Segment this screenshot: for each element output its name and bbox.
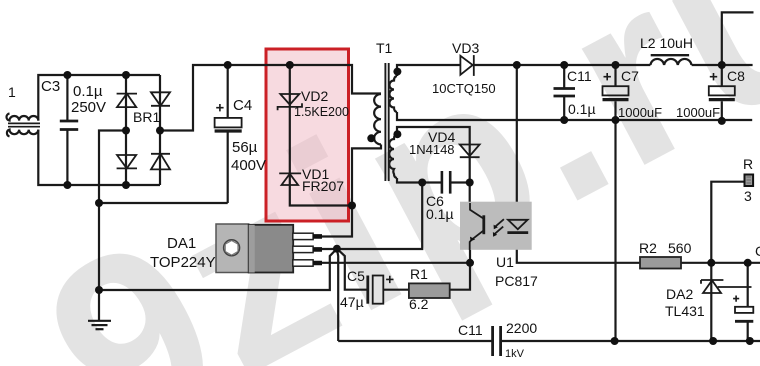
svg-text:T1: T1 bbox=[376, 40, 393, 56]
label VD4 value bbox=[409, 142, 455, 157]
wire AC line bottom rail bbox=[38, 130, 160, 185]
wire secondary hot to VD3 bbox=[397, 65, 460, 76]
transformer T1 secondary winding bottom bbox=[389, 134, 397, 178]
highlight box around VD1/VD2 bbox=[266, 49, 349, 221]
svg-text:C4: C4 bbox=[233, 97, 252, 114]
diode VD1 bbox=[279, 173, 301, 185]
svg-text:U1: U1 bbox=[496, 254, 514, 270]
wire primary return to drain pin bbox=[322, 145, 381, 237]
wire C4 bottom to ground bbox=[99, 202, 228, 204]
label DA1 type bbox=[150, 254, 216, 271]
svg-text:47µ: 47µ bbox=[340, 294, 364, 310]
svg-text:1N4148: 1N4148 bbox=[409, 142, 455, 157]
output capacitor C9 (cut at edge) bbox=[733, 296, 753, 322]
svg-text:TOP224Y: TOP224Y bbox=[150, 254, 216, 271]
transformer T1 secondary winding top bbox=[389, 76, 397, 112]
TVS diode VD2 bbox=[278, 94, 302, 110]
diode VD3 bbox=[460, 55, 473, 76]
svg-text:C11: C11 bbox=[458, 322, 483, 338]
junction node C3 bottom bbox=[63, 181, 71, 189]
shunt regulator DA2 TL431 bbox=[701, 280, 752, 293]
label C8 value bbox=[676, 105, 720, 120]
junction node C4 top bbox=[224, 61, 232, 69]
svg-text:C7: C7 bbox=[621, 68, 639, 84]
resistor R2 bbox=[640, 257, 681, 269]
svg-text:0.1µ: 0.1µ bbox=[568, 101, 596, 117]
capacitor C6 bbox=[442, 171, 450, 194]
wire R1 to source node bbox=[450, 263, 470, 290]
wire output riser top right bbox=[722, 12, 754, 65]
label U1 type bbox=[495, 273, 538, 289]
label C11 2200 value bbox=[506, 320, 537, 336]
junction node output cap top bbox=[744, 259, 752, 267]
svg-text:3: 3 bbox=[744, 188, 752, 204]
junction node ground return bbox=[95, 286, 103, 294]
junction node C11 bottom bbox=[560, 116, 568, 124]
junction node ground C4 bbox=[95, 199, 103, 207]
label C4 bbox=[233, 97, 252, 114]
svg-text:VD3: VD3 bbox=[452, 40, 479, 56]
wire C7 node to cold rail bbox=[614, 120, 616, 341]
svg-text:R: R bbox=[743, 156, 753, 172]
DA1 pins bbox=[293, 233, 322, 266]
svg-text:VD2: VD2 bbox=[301, 88, 328, 104]
wire DC+ rail from bridge to transformer bbox=[160, 65, 381, 131]
label C11 filter value bbox=[568, 101, 596, 117]
capacitor C3 bbox=[60, 121, 78, 130]
svg-text:DA1: DA1 bbox=[167, 235, 196, 252]
diode VD4 bbox=[460, 145, 480, 158]
winding polarity dots bbox=[367, 68, 401, 143]
label C7 value bbox=[618, 105, 662, 120]
label input pin 1 bbox=[8, 84, 16, 100]
svg-text:1: 1 bbox=[8, 84, 16, 100]
resistor R3 bbox=[745, 175, 754, 187]
wire output cap branch bbox=[747, 263, 749, 341]
svg-text:1000uF: 1000uF bbox=[618, 105, 662, 120]
label VD3 bbox=[452, 40, 479, 56]
IC DA1 TOP224Y package bbox=[216, 224, 293, 273]
label T1 bbox=[376, 40, 393, 56]
wire TL431 branch bbox=[710, 263, 712, 341]
wire aux return to C6 bbox=[397, 178, 470, 183]
svg-text:0.1µ: 0.1µ bbox=[426, 206, 454, 222]
wire BR1 left branch bbox=[125, 75, 127, 185]
svg-text:6.2: 6.2 bbox=[409, 296, 429, 312]
resistor R1 bbox=[409, 283, 450, 298]
wire control pin to C6 junction bbox=[322, 183, 422, 250]
transformer T1 core bbox=[385, 63, 388, 181]
capacitor C5 bbox=[368, 276, 394, 304]
wire opto LED feed and output to R2 bbox=[517, 65, 640, 263]
junction node C3 top bbox=[63, 71, 71, 79]
label R2 value bbox=[668, 240, 692, 256]
label U1 bbox=[496, 254, 514, 270]
svg-text:C: C bbox=[755, 243, 760, 259]
wire ground feed from bridge bbox=[99, 131, 126, 321]
wire AC line top rail bbox=[38, 75, 160, 121]
junction node R2 out bbox=[707, 259, 715, 267]
optocoupler U1 PC817 bbox=[460, 202, 532, 250]
wire BR1 right branch bbox=[159, 75, 161, 185]
wire VD3 cathode rail bbox=[474, 64, 753, 66]
capacitor C11 2200/1kV bbox=[493, 326, 501, 356]
ground bbox=[88, 321, 111, 329]
junction node BR1 plus bbox=[156, 127, 164, 135]
svg-text:PC817: PC817 bbox=[495, 273, 538, 289]
transformer T1 primary winding bbox=[374, 94, 381, 144]
svg-text:C11: C11 bbox=[567, 68, 592, 84]
junction node C8 bottom bbox=[718, 117, 726, 125]
svg-text:250V: 250V bbox=[71, 99, 106, 116]
label VD3 value bbox=[432, 81, 496, 96]
label VD1 value bbox=[302, 178, 344, 194]
label C5 bbox=[347, 268, 365, 284]
bridge rectifier BR1 bbox=[117, 92, 170, 169]
svg-text:FR207: FR207 bbox=[302, 178, 344, 194]
junction node BR1 top bbox=[122, 71, 130, 79]
wire feedback riser to R3 bbox=[711, 182, 744, 263]
wire secondary 0V rail bbox=[397, 112, 752, 120]
svg-text:TL431: TL431 bbox=[665, 303, 705, 319]
junction node source bbox=[466, 259, 474, 267]
svg-text:R2: R2 bbox=[639, 240, 657, 256]
junction node snubber bottom bbox=[348, 202, 356, 210]
label R2 bbox=[639, 240, 657, 256]
inductor L2 bbox=[650, 55, 691, 65]
wire opto collector bbox=[469, 183, 471, 203]
label C11 2200 bbox=[458, 322, 483, 338]
label R3 bbox=[743, 156, 753, 172]
junction node control bbox=[333, 245, 341, 253]
label R1 value bbox=[409, 296, 429, 312]
label R1 bbox=[410, 266, 428, 282]
label C7 bbox=[621, 68, 639, 84]
label R3 value bbox=[744, 188, 752, 204]
wire C7 branch bbox=[614, 65, 616, 120]
capacitor C11 filter 0.1u bbox=[554, 89, 576, 97]
svg-text:L2 10uH: L2 10uH bbox=[640, 35, 693, 51]
label C8 bbox=[727, 68, 745, 84]
junction node C6 right bbox=[466, 179, 474, 187]
junction node cold rail bbox=[611, 337, 619, 345]
svg-text:1kV: 1kV bbox=[505, 348, 525, 360]
junction node C7 bottom bbox=[612, 116, 620, 124]
label C6 bbox=[426, 193, 454, 222]
wire C5 to R1 bbox=[384, 289, 409, 291]
junction node BR1 bottom bbox=[122, 181, 130, 189]
wire source pin line bbox=[322, 250, 470, 263]
wire C4 branch bbox=[227, 65, 229, 203]
svg-text:2200: 2200 bbox=[506, 320, 537, 336]
svg-text:0.1µ: 0.1µ bbox=[73, 83, 103, 100]
label VD1 bbox=[302, 166, 329, 182]
label VD4 bbox=[428, 129, 455, 145]
svg-text:DA2: DA2 bbox=[666, 286, 693, 302]
input choke L1 bbox=[6, 114, 40, 137]
wire C11 filter branch bbox=[563, 65, 565, 120]
label C11 filter bbox=[567, 68, 592, 84]
svg-text:C3: C3 bbox=[41, 78, 60, 95]
label C5 value bbox=[340, 294, 364, 310]
svg-text:10CTQ150: 10CTQ150 bbox=[432, 81, 496, 96]
label DA2 type bbox=[665, 303, 705, 319]
svg-text:R1: R1 bbox=[410, 266, 428, 282]
svg-text:1.5KE200: 1.5KE200 bbox=[294, 105, 349, 119]
junction node output cap bottom bbox=[746, 337, 754, 345]
wire control node to C5 bbox=[337, 249, 367, 290]
wire C3 branch bbox=[66, 75, 68, 185]
wire R2 to output sense bbox=[681, 262, 760, 264]
junction node C8 top bbox=[718, 61, 726, 69]
label C4 value bbox=[231, 139, 266, 174]
svg-text:C5: C5 bbox=[347, 268, 365, 284]
wire C8 branch bbox=[721, 65, 723, 121]
label DA2 bbox=[666, 286, 693, 302]
junction node VD3 out bbox=[513, 61, 521, 69]
junction node C11 top bbox=[560, 61, 568, 69]
svg-text:400V: 400V bbox=[231, 157, 266, 174]
label C11 1kV bbox=[505, 348, 525, 360]
label VD2 value bbox=[294, 105, 349, 119]
junction node C7 top bbox=[612, 61, 620, 69]
junction node TL431 bottom bbox=[709, 337, 717, 345]
label L2 bbox=[640, 35, 693, 51]
wire bottom rail bbox=[338, 340, 760, 342]
svg-text:1000uF: 1000uF bbox=[676, 105, 720, 120]
label DA1 bbox=[167, 235, 196, 252]
junction node snubber top bbox=[286, 61, 294, 69]
capacitor C8 bbox=[709, 73, 735, 100]
label VD2 bbox=[301, 88, 328, 104]
svg-text:BR1: BR1 bbox=[133, 109, 160, 125]
label C9 cut bbox=[755, 243, 760, 259]
label C3 bbox=[41, 78, 60, 95]
wire snubber VD2/VD1 chain bbox=[290, 65, 352, 206]
capacitor C7 bbox=[603, 73, 629, 100]
svg-text:560: 560 bbox=[668, 240, 692, 256]
label C3 value bbox=[71, 83, 106, 116]
capacitor C4 bbox=[215, 104, 242, 131]
wire control node to bottom rail bbox=[337, 249, 338, 341]
svg-text:C8: C8 bbox=[727, 68, 745, 84]
wire ground return to control node bbox=[99, 249, 337, 290]
wire aux winding to VD4 and opto junction bbox=[397, 127, 470, 183]
junction node C6 left bbox=[418, 179, 426, 187]
svg-text:56µ: 56µ bbox=[232, 139, 258, 156]
label BR1 bbox=[133, 109, 160, 125]
junction node BR1 minus bbox=[122, 127, 130, 135]
